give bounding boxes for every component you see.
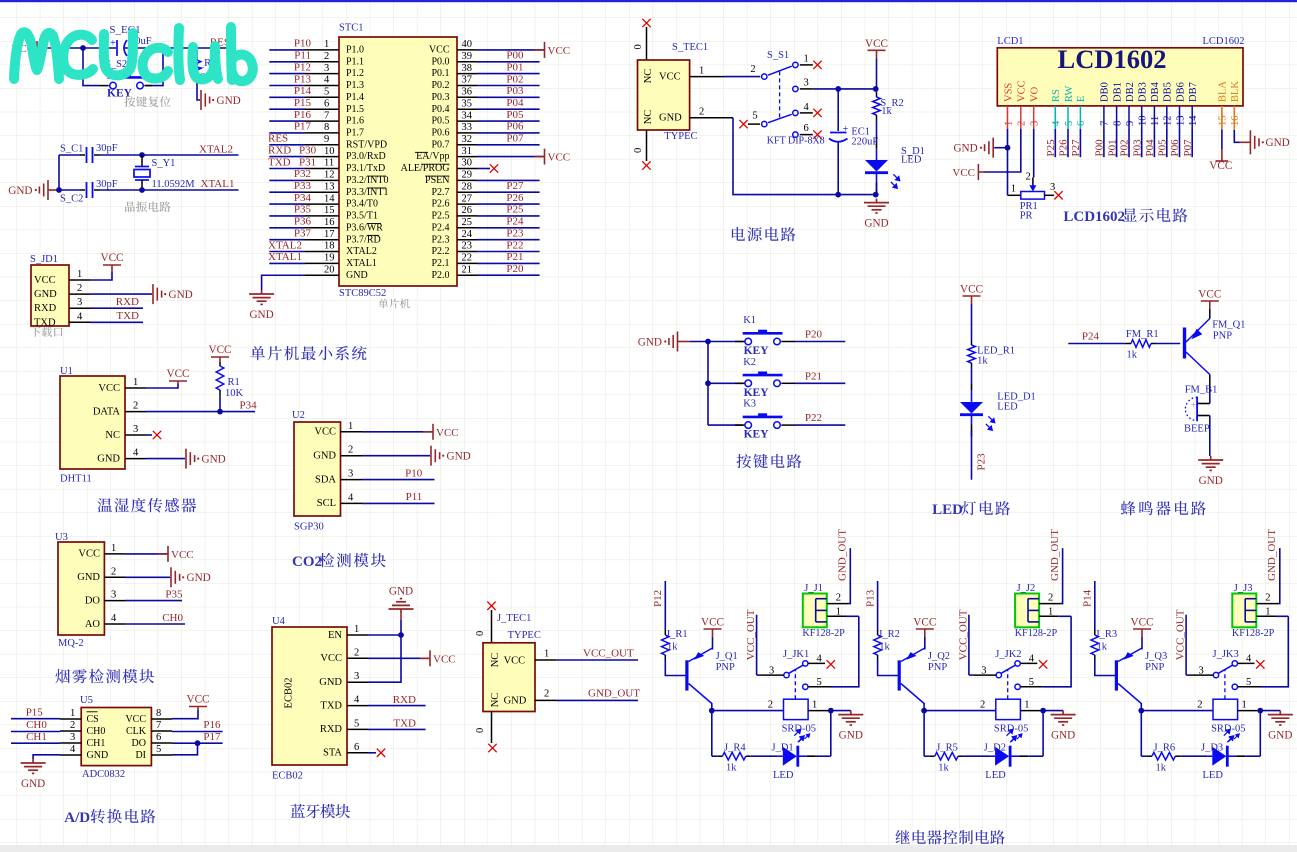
wire net row pin 24 xyxy=(477,239,540,241)
svg-text:P1.7: P1.7 xyxy=(346,128,364,139)
svg-text:P03: P03 xyxy=(506,85,524,97)
node junction key bus 1 xyxy=(705,339,711,345)
svg-text:11.0592M: 11.0592M xyxy=(152,179,196,190)
wire VCC_OUT to pin3 J_JK2 xyxy=(968,615,970,675)
svg-text:13: 13 xyxy=(1175,116,1186,127)
svg-text:VCC: VCC xyxy=(504,655,526,666)
wire net row pin 8 xyxy=(269,132,305,134)
wire U3 pin4 AO xyxy=(125,623,185,625)
svg-text:3: 3 xyxy=(348,469,353,480)
svg-text:P13: P13 xyxy=(294,73,312,85)
capacitor EC1 220uF xyxy=(837,89,839,131)
node junction DATA/R1 xyxy=(217,409,223,415)
svg-text:1: 1 xyxy=(70,708,75,719)
wire gnd up to S_C1 xyxy=(58,155,60,190)
relay coil SRD-05 (J_JK2) xyxy=(996,699,1021,719)
wire LCD pin to P02 xyxy=(1128,129,1130,157)
svg-text:ECB02: ECB02 xyxy=(284,678,295,709)
svg-text:29: 29 xyxy=(462,170,473,181)
pin 14 STC1 (P3.4/T0) xyxy=(305,203,339,205)
svg-text:+: + xyxy=(110,38,116,49)
resistor J_R3 1k xyxy=(1094,630,1096,635)
svg-text:P03: P03 xyxy=(1131,139,1143,157)
wire node down to J_R5 xyxy=(923,711,925,757)
pin 27 STC1 (P2.6) xyxy=(457,203,477,205)
svg-text:8: 8 xyxy=(1112,121,1123,126)
wire J_R4 to LED J_D1 xyxy=(751,755,778,757)
svg-text:P0.3: P0.3 xyxy=(431,92,449,103)
svg-text:TXD: TXD xyxy=(116,310,139,322)
wire net row pin 21 xyxy=(477,274,540,276)
pin stub K3 right xyxy=(781,424,795,426)
svg-text:15: 15 xyxy=(1218,116,1229,127)
svg-text:KEY: KEY xyxy=(744,387,770,399)
wire LCD pin to P27 xyxy=(1079,129,1081,157)
svg-text:P22: P22 xyxy=(506,239,523,251)
svg-text:J_J2: J_J2 xyxy=(1017,583,1036,594)
key K3 pushbutton xyxy=(708,424,743,426)
svg-text:3: 3 xyxy=(804,78,809,89)
pin stub K1 right xyxy=(781,341,795,343)
svg-text:J_Q1: J_Q1 xyxy=(716,651,738,662)
svg-text:J_R4: J_R4 xyxy=(724,743,746,754)
power port GND (LCD right) xyxy=(1250,130,1259,154)
svg-text:P16: P16 xyxy=(294,109,312,121)
svg-text:P23: P23 xyxy=(506,228,524,240)
svg-text:P26: P26 xyxy=(1058,139,1070,157)
dashed link coil to switch J_JK1 xyxy=(794,669,796,699)
svg-text:LCD1602: LCD1602 xyxy=(1058,44,1167,74)
svg-text:1: 1 xyxy=(1048,607,1053,618)
wire net row pin 26 xyxy=(477,215,540,217)
svg-text:39: 39 xyxy=(462,51,473,62)
svg-text:6: 6 xyxy=(324,98,329,109)
key S_S2 KEY pushbutton xyxy=(99,85,109,87)
svg-text:VCC: VCC xyxy=(865,38,888,50)
pin5 S_S1 no connect xyxy=(748,123,760,125)
power port GND (relay 1) xyxy=(838,711,863,725)
svg-text:ECB02: ECB02 xyxy=(272,771,303,782)
title 蜂鸣器电路 xyxy=(1121,501,1136,515)
svg-text:KEY: KEY xyxy=(744,345,770,357)
svg-text:31: 31 xyxy=(462,146,473,157)
power port VCC (U4) xyxy=(420,657,430,659)
power port GND (reset circuit) xyxy=(201,90,210,110)
title 温湿度传感器 xyxy=(97,498,112,512)
svg-text:P2.4: P2.4 xyxy=(431,222,449,233)
svg-text:P35: P35 xyxy=(165,588,183,600)
svg-text:TXD: TXD xyxy=(320,700,342,711)
svg-text:1: 1 xyxy=(111,543,116,554)
wire to gnd symbol xyxy=(994,147,1007,149)
svg-text:4: 4 xyxy=(111,613,117,624)
node junction EC1 bottom xyxy=(835,192,841,198)
pin 34 STC1 (P0.5) xyxy=(457,120,477,122)
svg-text:GND: GND xyxy=(638,336,662,348)
node junction collector J_Q2 xyxy=(921,708,927,714)
pin 0 J_TEC1 top no-connect xyxy=(487,602,495,610)
wire net row pin 35 xyxy=(477,108,540,110)
wire net row pin 2 xyxy=(269,61,305,63)
wire VCC to LED_R1 xyxy=(971,304,973,341)
svg-text:9: 9 xyxy=(1125,121,1136,126)
wire BLA to VCC-down port xyxy=(1221,106,1223,129)
pin2 J_J1 wire to GND_OUT xyxy=(827,603,849,605)
svg-text:7: 7 xyxy=(324,110,329,121)
svg-text:P25: P25 xyxy=(1045,139,1057,157)
svg-text:1: 1 xyxy=(812,699,817,710)
wire node down to LED xyxy=(1259,711,1261,757)
svg-text:GND_OUT: GND_OUT xyxy=(1266,529,1278,581)
wire VCC to cap S_EC1 xyxy=(48,47,116,49)
svg-text:PNP: PNP xyxy=(1145,662,1164,673)
pin 24 STC1 (P2.3) xyxy=(457,239,477,241)
svg-text:XTAL1: XTAL1 xyxy=(268,251,302,263)
switch S_S1 lever 5-4 xyxy=(768,114,792,122)
wire J_D1 to node xyxy=(816,755,831,757)
annotation 按键复位 xyxy=(124,96,135,107)
pin3 U1 no connect xyxy=(146,434,152,436)
wire J_R1 to base J_Q1 xyxy=(665,660,685,676)
pin 23 STC1 (P2.2) xyxy=(457,251,477,253)
svg-text:VCC: VCC xyxy=(208,344,231,356)
svg-text:1k: 1k xyxy=(881,106,892,117)
svg-text:1: 1 xyxy=(804,54,809,65)
capacitor S_EC1 10uF xyxy=(117,40,127,56)
power port GND (U4 top) xyxy=(389,599,414,613)
wire VSS to gnd xyxy=(1007,129,1009,148)
svg-text:GND: GND xyxy=(447,451,471,463)
wire to VCC xyxy=(477,49,545,51)
svg-text:GND: GND xyxy=(1051,730,1075,742)
wire node down to J_R6 xyxy=(1140,711,1142,757)
svg-text:P37: P37 xyxy=(294,228,312,240)
wire J_D2 to node xyxy=(1028,755,1043,757)
wire net row pin 16 xyxy=(269,227,305,229)
wire LED_D1 to P23 xyxy=(971,430,973,480)
wire node to relay coil xyxy=(712,710,784,712)
wire U2 pin1 to VCC xyxy=(362,431,433,433)
svg-text:P06: P06 xyxy=(1169,139,1181,157)
pin 3 U2 xyxy=(341,479,363,481)
pin 33 STC1 (P0.6) xyxy=(457,132,477,134)
pin 1 STC1 (P1.0) xyxy=(305,49,339,51)
svg-text:P3.4/T0: P3.4/T0 xyxy=(346,199,378,210)
svg-text:P07: P07 xyxy=(1182,139,1194,157)
LED LED_D1 xyxy=(971,384,973,390)
svg-text:CH1: CH1 xyxy=(87,738,106,749)
pin30 no connect xyxy=(477,168,490,170)
wire node up to GND port xyxy=(400,620,402,635)
wire net row pin 6 xyxy=(269,108,305,110)
svg-text:4: 4 xyxy=(804,102,810,113)
svg-text:P0.4: P0.4 xyxy=(431,104,449,115)
svg-text:5: 5 xyxy=(1064,121,1075,126)
pin 3 U3 xyxy=(104,600,125,602)
svg-text:NC: NC xyxy=(490,653,501,668)
svg-text:3: 3 xyxy=(70,732,75,743)
power port VCC (J_Q3) xyxy=(1133,629,1151,637)
svg-text:J_Q2: J_Q2 xyxy=(928,651,950,662)
power port GND (S_JD1) xyxy=(153,284,162,304)
svg-text:VCC: VCC xyxy=(952,167,975,179)
svg-text:P34: P34 xyxy=(240,400,258,412)
svg-text:FM_Q1: FM_Q1 xyxy=(1212,320,1245,331)
svg-text:DB0: DB0 xyxy=(1100,82,1111,102)
svg-text:30pF: 30pF xyxy=(96,143,118,154)
svg-text:P17: P17 xyxy=(203,731,221,743)
wire node to GND xyxy=(1260,710,1280,712)
svg-text:4: 4 xyxy=(324,75,330,86)
wire net row pin 14 xyxy=(269,203,305,205)
svg-text:10: 10 xyxy=(324,146,335,157)
wire node down to LED xyxy=(830,711,832,757)
svg-text:SCL: SCL xyxy=(317,498,336,509)
pin 12 STC1 (P3.2/INT0) xyxy=(305,179,339,181)
wire J_R2 to base J_Q2 xyxy=(878,660,898,676)
svg-text:0: 0 xyxy=(633,148,644,153)
pin 37 STC1 (P0.2) xyxy=(457,85,477,87)
svg-text:2: 2 xyxy=(348,445,353,456)
svg-text:RXD: RXD xyxy=(34,303,57,314)
wire pin5 J_JK2 to J_J2 pin1 xyxy=(1021,686,1043,688)
svg-text:P14: P14 xyxy=(294,85,312,97)
svg-text:36: 36 xyxy=(462,87,473,98)
svg-text:MQ-2: MQ-2 xyxy=(58,638,84,649)
svg-text:VSS: VSS xyxy=(1003,83,1014,102)
wire K3 to P22 xyxy=(795,424,845,426)
node junction XTAL2 xyxy=(139,152,145,158)
pin 1 S_TEC1 xyxy=(690,76,724,78)
wire LCD pin to P05 xyxy=(1166,129,1168,157)
svg-text:3: 3 xyxy=(1030,121,1041,126)
wire S_S1 pin3 to VCC rail xyxy=(800,88,813,90)
svg-text:0: 0 xyxy=(475,728,486,733)
switch J_JK2 lever xyxy=(1001,665,1015,673)
pin 7 STC1 (P1.6) xyxy=(305,120,339,122)
svg-text:P3.7/RD: P3.7/RD xyxy=(346,234,381,245)
svg-text:GND: GND xyxy=(864,218,888,230)
svg-text:P14: P14 xyxy=(1082,589,1094,607)
svg-text:E: E xyxy=(1076,96,1087,102)
wire U5 pin7 CLK xyxy=(172,731,223,733)
pin 0 S_TEC1 top no-connect xyxy=(642,19,650,27)
pin 31 STC1 (EA/Vpp) xyxy=(457,156,477,158)
switch S_S1 dashed link xyxy=(779,71,781,120)
power port GND (MCU) xyxy=(249,290,274,304)
pin 2 U3 xyxy=(104,576,125,578)
power port GND (U2) xyxy=(431,446,440,466)
svg-text:2: 2 xyxy=(750,64,755,75)
svg-text:DO: DO xyxy=(132,738,146,749)
LED J_D2 xyxy=(990,755,995,757)
svg-text:GND: GND xyxy=(34,289,57,300)
svg-text:P3.3/INT1: P3.3/INT1 xyxy=(346,187,389,198)
wire BLK to GND xyxy=(1233,106,1235,130)
pin 36 STC1 (P0.3) xyxy=(457,96,477,98)
svg-text:P34: P34 xyxy=(294,192,312,204)
svg-text:2: 2 xyxy=(1197,699,1202,710)
svg-text:CH0: CH0 xyxy=(87,726,106,737)
svg-text:1k: 1k xyxy=(1127,350,1138,361)
wire P24 to FM_R1 xyxy=(1068,343,1126,345)
wire junction down to key S_S2 xyxy=(83,48,99,86)
svg-text:21: 21 xyxy=(462,264,473,275)
svg-text:U5: U5 xyxy=(80,695,93,706)
svg-text:GND: GND xyxy=(187,572,211,584)
wire U4 pin1 EN to node xyxy=(368,634,401,636)
svg-text:P12: P12 xyxy=(294,61,311,73)
wire U1 pin4 to GND xyxy=(146,458,185,460)
svg-text:VCC: VCC xyxy=(171,549,194,561)
svg-text:15: 15 xyxy=(324,205,335,216)
svg-text:RXD: RXD xyxy=(393,694,416,706)
power port GND (buzzer) xyxy=(1198,456,1223,470)
svg-text:GND: GND xyxy=(659,113,682,124)
svg-text:J_JK2: J_JK2 xyxy=(995,649,1021,660)
svg-text:GND_OUT: GND_OUT xyxy=(1049,529,1061,581)
svg-text:GND: GND xyxy=(504,696,527,707)
svg-text:4: 4 xyxy=(354,695,360,706)
svg-text:LED: LED xyxy=(1203,770,1224,781)
svg-text:18: 18 xyxy=(324,241,335,252)
pin 1 U4 xyxy=(347,634,368,636)
power port GND (keys) xyxy=(669,332,678,352)
svg-text:12: 12 xyxy=(324,170,335,181)
pin 26 STC1 (P2.5) xyxy=(457,215,477,217)
wire node down to pin3 xyxy=(368,635,401,682)
pin 5 U5 xyxy=(151,754,172,756)
svg-text:NC: NC xyxy=(105,430,120,441)
wire U4 pin5 RXD xyxy=(368,728,426,730)
wire net row pin 7 xyxy=(269,120,305,122)
pin 9 STC1 (RST/VPD) xyxy=(305,144,339,146)
relay actuation arrows xyxy=(1228,737,1233,742)
svg-text:P04: P04 xyxy=(506,97,524,109)
wire P13 down to J_R2 xyxy=(877,581,879,630)
svg-text:6: 6 xyxy=(1076,121,1087,126)
svg-text:RXD: RXD xyxy=(268,144,291,156)
svg-text:1k: 1k xyxy=(726,763,737,774)
svg-text:GND_OUT: GND_OUT xyxy=(588,688,640,700)
svg-text:P27: P27 xyxy=(506,180,524,192)
svg-text:GND: GND xyxy=(839,730,863,742)
switch S_S1 lever 2-1 xyxy=(768,66,792,75)
svg-text:30pF: 30pF xyxy=(96,179,118,190)
svg-text:5: 5 xyxy=(752,111,757,122)
svg-text:J_R6: J_R6 xyxy=(1154,743,1176,754)
pin1 coil wire to LED node xyxy=(808,710,831,712)
pin 2 U4 xyxy=(347,657,368,659)
svg-text:P24: P24 xyxy=(1082,331,1100,343)
svg-text:DB2: DB2 xyxy=(1125,82,1136,102)
svg-text:1k: 1k xyxy=(938,763,949,774)
transistor FM_Q1 PNP xyxy=(1183,328,1186,359)
svg-text:R1: R1 xyxy=(228,377,240,388)
wire node to relay coil xyxy=(924,710,996,712)
pin 2 U2 xyxy=(341,455,363,457)
svg-text:XTAL2: XTAL2 xyxy=(199,144,233,156)
pin 22 STC1 (P2.1) xyxy=(457,262,477,264)
node junction at reset rail xyxy=(80,45,86,51)
pin 20 STC1 (GND) xyxy=(305,274,339,276)
svg-text:P0.6: P0.6 xyxy=(431,128,449,139)
svg-text:2: 2 xyxy=(77,283,82,294)
svg-text:VCC: VCC xyxy=(320,653,342,664)
dashed link coil to switch J_JK3 xyxy=(1224,669,1226,699)
pin 6 U4 xyxy=(347,752,368,754)
node junction XTAL1 xyxy=(139,187,145,193)
wire LCD pin to P00 xyxy=(1103,129,1105,157)
svg-text:3: 3 xyxy=(111,590,116,601)
resistor J_R2 1k xyxy=(877,630,879,635)
svg-text:DATA: DATA xyxy=(93,406,121,417)
svg-text:0: 0 xyxy=(475,631,486,636)
svg-text:0: 0 xyxy=(633,44,644,49)
svg-text:VCC: VCC xyxy=(34,275,56,286)
pin 6 U5 xyxy=(151,742,172,744)
svg-text:P20: P20 xyxy=(805,329,823,341)
pin 1 U1 xyxy=(125,387,146,389)
svg-text:NC: NC xyxy=(643,69,654,84)
svg-text:CH0: CH0 xyxy=(162,612,183,624)
svg-text:GND: GND xyxy=(217,95,241,107)
pin1 PR1 xyxy=(1008,194,1021,196)
wire S_TEC1 pin2 to gnd rail xyxy=(733,118,876,195)
svg-text:1k: 1k xyxy=(879,642,890,653)
pin6 S_S1 no connect xyxy=(800,134,813,136)
svg-text:VCC: VCC xyxy=(913,617,936,629)
svg-text:DB1: DB1 xyxy=(1112,82,1123,102)
svg-text:34: 34 xyxy=(462,110,473,121)
pin 28 STC1 (P2.7) xyxy=(457,191,477,193)
svg-text:1: 1 xyxy=(1242,699,1247,710)
svg-text:1: 1 xyxy=(1265,607,1270,618)
svg-text:RXD: RXD xyxy=(320,724,343,735)
pin 3 U5 xyxy=(60,742,81,744)
wire VCC_OUT to pin3 J_JK3 xyxy=(1185,615,1187,675)
pin 4 U4 xyxy=(347,705,368,707)
svg-text:J_TEC1: J_TEC1 xyxy=(497,613,531,624)
svg-text:KEY: KEY xyxy=(744,429,770,441)
svg-text:J_J1: J_J1 xyxy=(804,583,823,594)
svg-text:P15: P15 xyxy=(26,706,44,718)
key K2 pushbutton xyxy=(708,382,743,384)
svg-text:P30: P30 xyxy=(299,144,317,156)
wire GND_OUT xyxy=(556,699,638,701)
svg-text:LED: LED xyxy=(985,770,1006,781)
pin 3 STC1 (P1.2) xyxy=(305,73,339,75)
pin2 J_J2 wire to GND_OUT xyxy=(1039,603,1061,605)
power port GND (power circuit) xyxy=(864,199,889,213)
svg-text:VCC_OUT: VCC_OUT xyxy=(583,647,634,659)
title 按键电路 xyxy=(736,454,751,468)
resistor J_R5 1k xyxy=(930,755,935,757)
svg-text:P2.2: P2.2 xyxy=(431,246,449,257)
wire net row pin 12 xyxy=(269,179,305,181)
wire S_JD1 pin3 RXD xyxy=(90,307,143,309)
svg-text:11: 11 xyxy=(1150,116,1161,126)
wire U5 pin6 DO xyxy=(172,742,223,744)
wire U1 pin2 DATA to P34 xyxy=(146,411,255,413)
wire net row pin 36 xyxy=(477,96,540,98)
wire VCC to emitter J_Q2 xyxy=(924,637,926,650)
pin 4 U3 xyxy=(104,623,125,625)
title 电源电路 xyxy=(732,227,745,241)
svg-text:U4: U4 xyxy=(272,616,286,627)
wire S_R1 to ground xyxy=(197,85,200,100)
svg-text:GND: GND xyxy=(77,572,100,583)
